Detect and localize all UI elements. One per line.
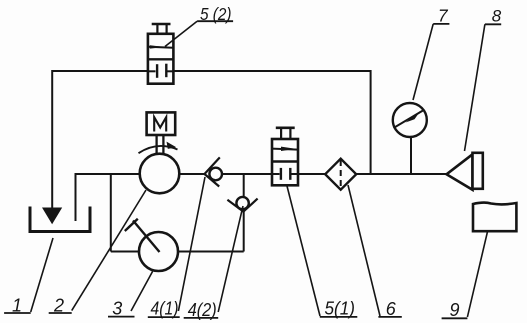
leader line for label 5(1) (287, 186, 320, 316)
valve 5(2) body (148, 34, 174, 84)
wire: main line 4(1) to valve 5(1) (222, 173, 272, 175)
hand pump 3 (139, 232, 178, 271)
wire: main line valve 5(1) to filter (298, 173, 325, 175)
wire: hand pump outlet (178, 251, 244, 253)
valve 5(2) push button (152, 23, 171, 26)
leader line for label 7 (413, 24, 433, 100)
filter 6 (325, 159, 356, 190)
motor M (147, 112, 176, 135)
nozzle 8 outlet block (473, 153, 483, 189)
hand pump lever T-bar (125, 219, 138, 231)
check valve 4(1) (209, 168, 222, 181)
wire: top return line right segment (173, 70, 370, 72)
valve 5(2) lower divider (148, 58, 174, 60)
svg-text:8: 8 (492, 7, 502, 26)
workpiece 9 (473, 203, 516, 232)
flow arrow into tank (42, 208, 62, 225)
shaft between motor and pump (155, 135, 157, 155)
valve 5(1) flow-path divider with arrow (272, 149, 298, 150)
label 5(2) (197, 20, 233, 22)
wire: right vertical from top line down to main line (370, 70, 372, 174)
svg-text:4(1): 4(1) (151, 299, 179, 319)
svg-text:1: 1 (12, 296, 22, 316)
svg-text:5(1): 5(1) (325, 299, 356, 319)
nozzle 8 cone (447, 154, 473, 190)
leader line for label 6 (348, 185, 380, 316)
wire: branch down to hand pump (110, 174, 112, 252)
valve 5(1) push button (276, 127, 295, 130)
leader line for label 1 (31, 238, 53, 312)
leader line for label 9 (467, 231, 487, 317)
label 8 (485, 23, 501, 25)
check valve 4(2) (236, 197, 248, 209)
leader line for label 4(2) (218, 206, 243, 312)
leader line for label 3 (131, 271, 153, 311)
svg-text:6: 6 (386, 299, 397, 319)
pressure gauge 7 (393, 103, 427, 137)
label 6 (378, 316, 401, 318)
rotation arrow arc (139, 146, 178, 153)
leader line for label 2 (72, 190, 146, 311)
wire: suction pipe from tank (76, 174, 140, 221)
svg-text:4(2): 4(2) (188, 300, 217, 320)
pressure gauge 7 stem (410, 137, 412, 174)
leader line for label 4(1) (178, 177, 205, 311)
label 2 (49, 312, 72, 314)
wire: main pressure line pump to check valve 4(1) (179, 173, 204, 175)
label 5(1) (320, 316, 358, 318)
leader line for label 8 (465, 24, 485, 151)
wire: top return line left segment (52, 70, 148, 72)
wire: vertical from hand pump line up to check valve 4(2) (243, 212, 245, 252)
label 7 (433, 23, 449, 25)
label 3 (108, 316, 135, 318)
svg-text:3: 3 (112, 299, 122, 319)
svg-text:5 (2): 5 (2) (200, 4, 232, 24)
wire: left vertical return to tank (51, 70, 53, 209)
valve 5(1) blocked ports (272, 173, 280, 175)
hand pump lever (133, 221, 160, 253)
label 4(1) (148, 316, 180, 318)
leader line for label 5(2) (165, 21, 197, 46)
label 1 (4, 312, 31, 314)
wire: vertical from check valve 4(2) to main line (243, 174, 245, 197)
valve 5(2) flow-path divider with arrow (148, 46, 174, 49)
valve 5(1) lower divider (272, 160, 298, 162)
wire: main line filter to nozzle (356, 173, 446, 175)
wire: hand pump inlet (111, 251, 139, 253)
tank 1 (30, 207, 90, 232)
svg-text:9: 9 (449, 300, 459, 320)
gauge needle (394, 110, 425, 128)
svg-text:2: 2 (53, 296, 64, 316)
label 9 (442, 317, 468, 319)
label 4(2) (184, 317, 219, 319)
svg-text:7: 7 (438, 5, 449, 25)
valve 5(1) body (272, 139, 298, 185)
pump 2 (140, 154, 180, 194)
valve 5(2) blocked ports (148, 70, 156, 72)
